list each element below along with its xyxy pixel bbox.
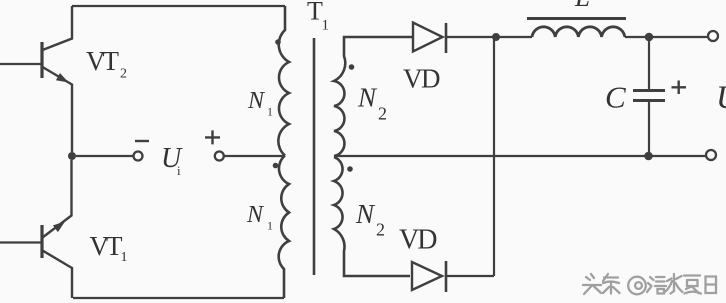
svg-text:VD: VD bbox=[403, 64, 440, 94]
svg-text:C: C bbox=[605, 80, 626, 115]
svg-text:L: L bbox=[574, 0, 590, 12]
svg-text:N: N bbox=[355, 199, 376, 229]
svg-text:1: 1 bbox=[267, 219, 273, 233]
svg-text:i: i bbox=[177, 163, 181, 178]
svg-text:VT: VT bbox=[86, 46, 119, 76]
svg-text:2: 2 bbox=[378, 104, 387, 124]
svg-text:VD: VD bbox=[399, 225, 437, 256]
svg-text:1: 1 bbox=[121, 250, 128, 265]
svg-text:2: 2 bbox=[376, 220, 385, 240]
svg-text:2: 2 bbox=[120, 67, 127, 82]
svg-text:U: U bbox=[716, 80, 726, 116]
svg-text:N: N bbox=[246, 202, 265, 228]
svg-text:1: 1 bbox=[267, 105, 273, 119]
svg-text:N: N bbox=[357, 83, 378, 113]
svg-text:1: 1 bbox=[322, 18, 330, 34]
svg-text:VT: VT bbox=[90, 231, 123, 261]
svg-text:N: N bbox=[247, 88, 266, 114]
